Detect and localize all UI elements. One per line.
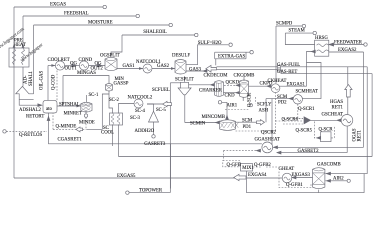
svg-text:MINDE: MINDE bbox=[79, 121, 95, 126]
svg-text:ato: ato bbox=[46, 107, 52, 112]
svg-text:SC-4: SC-4 bbox=[135, 109, 145, 114]
svg-text:EXGAS1: EXGAS1 bbox=[287, 83, 306, 88]
svg-text:GHEAT: GHEAT bbox=[279, 167, 295, 172]
svg-text:FEEDWATER: FEEDWATER bbox=[334, 40, 363, 45]
svg-text:SCM: SCM bbox=[277, 95, 288, 100]
svg-text:SCSPLIT: SCSPLIT bbox=[175, 78, 194, 83]
svg-text:Q-GFB: Q-GFB bbox=[227, 163, 241, 168]
svg-text:EXGAS5: EXGAS5 bbox=[117, 174, 136, 179]
svg-text:MIX1: MIX1 bbox=[242, 166, 254, 171]
svg-text:EXGAS3: EXGAS3 bbox=[292, 173, 311, 178]
svg-text:OGSPLIT: OGSPLIT bbox=[100, 53, 120, 58]
svg-text:SCMPD: SCMPD bbox=[276, 21, 293, 26]
svg-text:GGASHEAT: GGASHEAT bbox=[255, 137, 280, 142]
svg-text:EXGAS2: EXGAS2 bbox=[338, 48, 357, 53]
svg-text:HRSG: HRSG bbox=[315, 36, 328, 41]
svg-text:SCFUEL: SCFUEL bbox=[152, 88, 170, 93]
svg-text:Q-SCR: Q-SCR bbox=[248, 92, 253, 107]
svg-text:QSCR2: QSCR2 bbox=[261, 131, 277, 136]
svg-text:GAS2: GAS2 bbox=[157, 64, 170, 69]
svg-text:Q-COD: Q-COD bbox=[52, 74, 57, 90]
svg-text:CKD: CKD bbox=[225, 94, 236, 99]
svg-text:GASSP: GASSP bbox=[114, 82, 129, 87]
svg-text:COOLRET: COOLRET bbox=[48, 58, 70, 63]
svg-text:GASRET2: GASRET2 bbox=[298, 149, 320, 154]
svg-text:COOL: COOL bbox=[101, 131, 114, 136]
svg-text:SULF=H2O: SULF=H2O bbox=[198, 41, 222, 46]
svg-text:MINCOMB: MINCOMB bbox=[202, 115, 225, 120]
svg-text:GASCOMB: GASCOMB bbox=[317, 162, 341, 167]
svg-text:MINGAS: MINGAS bbox=[77, 71, 96, 76]
svg-text:SCMIN: SCMIN bbox=[190, 121, 206, 126]
svg-text:SCFLY: SCFLY bbox=[257, 102, 272, 107]
svg-text:Q-SCR5: Q-SCR5 bbox=[296, 128, 313, 133]
svg-text:MOISTURE: MOISTURE bbox=[88, 21, 113, 26]
svg-text:SCMHEAT: SCMHEAT bbox=[296, 89, 318, 94]
svg-text:ADDH2O: ADDH2O bbox=[135, 129, 155, 134]
svg-text:Q-GFB1: Q-GFB1 bbox=[286, 183, 303, 188]
svg-text:SCM: SCM bbox=[242, 119, 253, 124]
svg-text:GAS3: GAS3 bbox=[189, 67, 202, 72]
svg-text:SC-3: SC-3 bbox=[130, 116, 140, 121]
svg-text:SHALEOIL: SHALEOIL bbox=[143, 30, 167, 35]
svg-text:SC-5: SC-5 bbox=[156, 108, 166, 113]
svg-text:CKCOMB: CKCOMB bbox=[234, 74, 255, 79]
svg-text:CKDECOM: CKDECOM bbox=[204, 74, 229, 79]
svg-text:GAS-FUEL: GAS-FUEL bbox=[277, 63, 300, 68]
svg-text:TOPOWER: TOPOWER bbox=[139, 188, 163, 193]
svg-text:Q-RETLOS: Q-RETLOS bbox=[19, 133, 43, 138]
svg-text:SC-1: SC-1 bbox=[89, 93, 99, 98]
svg-text:AD-: AD- bbox=[24, 75, 29, 84]
svg-text:OIL-GAS: OIL-GAS bbox=[40, 70, 45, 90]
svg-text:HGAS: HGAS bbox=[330, 100, 343, 105]
svg-text:AIR2: AIR2 bbox=[333, 177, 344, 182]
svg-text:Q-GFB2: Q-GFB2 bbox=[254, 163, 271, 168]
svg-text:EXGAS: EXGAS bbox=[50, 3, 66, 8]
svg-text:COND: COND bbox=[79, 58, 93, 63]
svg-text:PD2: PD2 bbox=[278, 101, 287, 106]
svg-text:QCKD: QCKD bbox=[226, 81, 240, 86]
svg-text:HEAT: HEAT bbox=[14, 43, 26, 48]
svg-text:EXGAS4: EXGAS4 bbox=[248, 173, 267, 178]
svg-text:RETORT: RETORT bbox=[26, 115, 44, 120]
svg-text:EXTRA-GAS: EXTRA-GAS bbox=[218, 54, 246, 59]
svg-text:NATCOOL2: NATCOOL2 bbox=[128, 95, 153, 100]
svg-text:RET1: RET1 bbox=[332, 106, 344, 111]
svg-text:Q-SCR6: Q-SCR6 bbox=[282, 118, 299, 123]
svg-text:GSCHEAT: GSCHEAT bbox=[322, 112, 344, 117]
svg-text:RET1: RET1 bbox=[358, 129, 363, 141]
svg-text:SC-2: SC-2 bbox=[109, 98, 119, 103]
svg-text:CGASRET1: CGASRET1 bbox=[58, 138, 83, 143]
svg-text:OUT1: OUT1 bbox=[65, 67, 78, 72]
svg-text:Q-SCR1: Q-SCR1 bbox=[298, 107, 315, 112]
svg-text:SHAL1: SHAL1 bbox=[29, 70, 34, 86]
svg-text:FEEDSHAL: FEEDSHAL bbox=[64, 12, 89, 17]
svg-text:GAS1: GAS1 bbox=[123, 64, 136, 69]
svg-text:GASRET3: GASRET3 bbox=[144, 142, 166, 147]
svg-text:AIR1: AIR1 bbox=[227, 104, 238, 109]
svg-text:CHARKER: CHARKER bbox=[199, 89, 223, 94]
svg-text:DESULF: DESULF bbox=[172, 53, 190, 58]
svg-text:PD1: PD1 bbox=[243, 125, 252, 130]
svg-text:STEAM: STEAM bbox=[289, 29, 306, 34]
svg-text:ASH: ASH bbox=[259, 108, 269, 113]
svg-text:GAS-RET: GAS-RET bbox=[277, 70, 297, 75]
svg-text:MINRET: MINRET bbox=[64, 112, 82, 117]
svg-text:CKHEAT: CKHEAT bbox=[268, 79, 287, 84]
svg-text:Q-MINDE: Q-MINDE bbox=[56, 125, 77, 130]
svg-text:ADSHAL2: ADSHAL2 bbox=[19, 108, 41, 113]
svg-text:Q-SCR: Q-SCR bbox=[319, 128, 334, 133]
svg-text:SPTSHAL: SPTSHAL bbox=[59, 102, 80, 107]
